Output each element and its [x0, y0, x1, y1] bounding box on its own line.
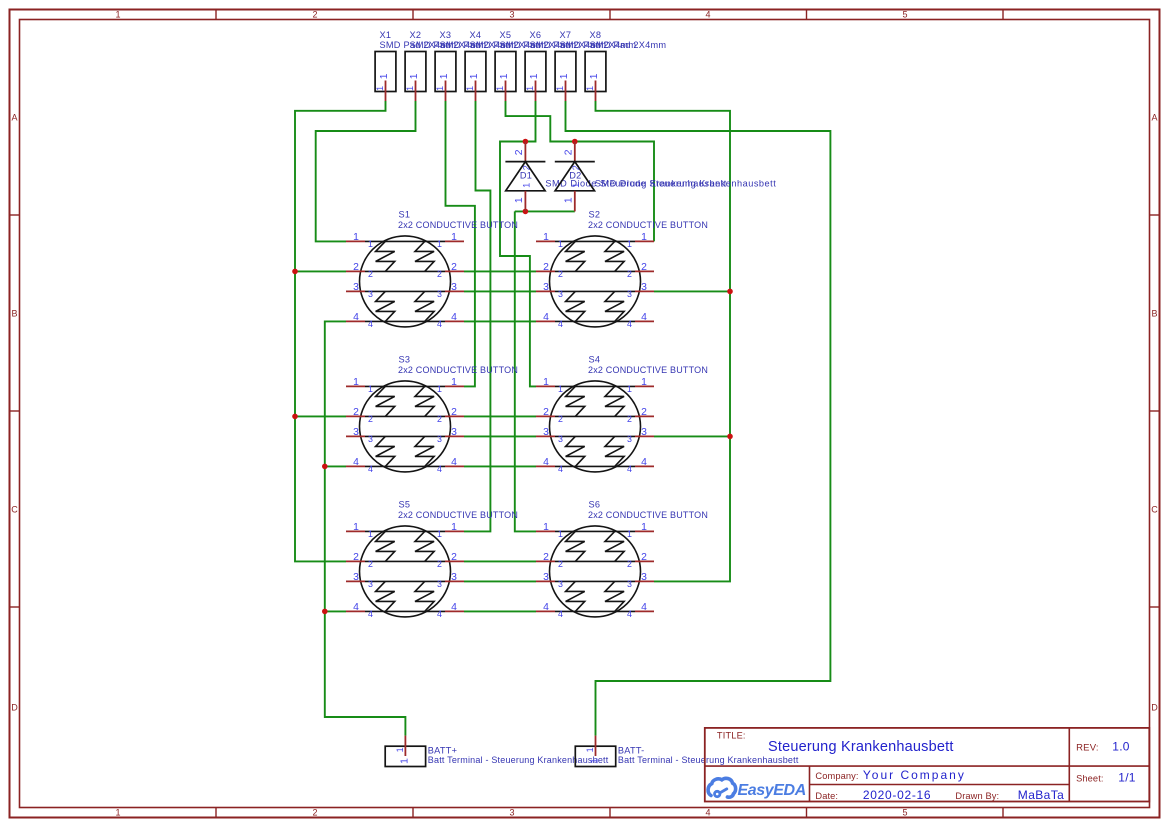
svg-text:1: 1 [353, 377, 359, 388]
svg-text:3: 3 [558, 434, 563, 444]
svg-text:3: 3 [627, 289, 632, 299]
svg-text:X4: X4 [470, 30, 482, 40]
svg-text:TITLE:: TITLE: [717, 731, 746, 741]
svg-text:2: 2 [312, 10, 317, 20]
svg-text:Steuerung Krankenhausbett: Steuerung Krankenhausbett [768, 739, 954, 755]
wire X3 to S3 pin 1 [446, 101, 475, 386]
S1 body [360, 236, 451, 327]
svg-text:2: 2 [627, 269, 632, 279]
button S2 (2x2 CONDUCTIVE BUTTON) [536, 209, 708, 329]
svg-text:3: 3 [509, 10, 514, 20]
svg-text:1: 1 [439, 73, 450, 79]
svg-text:BATT-: BATT- [618, 746, 645, 756]
S4 pin 1 [536, 377, 654, 394]
wire X7 to BATT- [566, 101, 831, 736]
svg-text:1: 1 [465, 86, 475, 91]
svg-text:Batt Terminal - Steuerung Kran: Batt Terminal - Steuerung Krankenhausbet… [618, 755, 799, 765]
svg-text:A: A [11, 113, 17, 123]
svg-text:2: 2 [437, 559, 442, 569]
svg-text:2: 2 [353, 262, 359, 273]
svg-text:1: 1 [589, 73, 600, 79]
svg-text:4: 4 [437, 319, 442, 329]
svg-text:Drawn By:: Drawn By: [955, 791, 999, 801]
svg-text:2: 2 [641, 262, 647, 273]
svg-text:1: 1 [437, 384, 442, 394]
wire X5 to D2 cathode and S2 pin 1 [506, 101, 655, 241]
svg-text:2x2 CONDUCTIVE BUTTON: 2x2 CONDUCTIVE BUTTON [588, 365, 708, 375]
svg-text:4: 4 [558, 319, 563, 329]
wire row link at y=561.4 [464, 560, 536, 562]
svg-text:X1: X1 [380, 30, 392, 40]
wire diode anodes to S6 pin 1 [515, 211, 536, 531]
svg-text:4: 4 [451, 312, 457, 323]
svg-text:1: 1 [627, 384, 632, 394]
svg-text:Sheet:: Sheet: [1076, 774, 1103, 784]
svg-text:D: D [1151, 703, 1158, 713]
svg-text:3: 3 [368, 434, 373, 444]
wire row link at y=436.4 [464, 435, 536, 437]
junction [322, 609, 328, 615]
S5 pin 4 [346, 602, 464, 619]
svg-text:4: 4 [451, 457, 457, 468]
svg-text:1: 1 [543, 232, 549, 243]
S1 pin 3 [346, 282, 464, 299]
svg-text:4: 4 [451, 602, 457, 613]
svg-text:3: 3 [437, 434, 442, 444]
S4 pin 4 [536, 457, 654, 474]
junction [322, 464, 328, 470]
button S1 (2x2 CONDUCTIVE BUTTON) [346, 209, 518, 329]
S6 contact zigzags [566, 531, 625, 611]
svg-text:1: 1 [379, 73, 390, 79]
wire pin-4 bus to BATT+ [325, 321, 406, 735]
svg-text:5: 5 [902, 10, 907, 20]
svg-text:2: 2 [543, 262, 549, 273]
svg-text:5: 5 [902, 808, 907, 818]
svg-text:S4: S4 [589, 354, 601, 364]
svg-text:2: 2 [558, 559, 563, 569]
svg-text:1: 1 [558, 529, 563, 539]
svg-text:1: 1 [437, 239, 442, 249]
svg-text:1: 1 [627, 529, 632, 539]
junction [727, 434, 733, 440]
svg-text:X3: X3 [440, 30, 452, 40]
svg-text:C: C [1151, 505, 1158, 515]
svg-text:3: 3 [353, 427, 359, 438]
svg-text:1: 1 [525, 86, 535, 91]
svg-text:2: 2 [437, 414, 442, 424]
svg-text:4: 4 [627, 609, 632, 619]
svg-text:B: B [11, 309, 17, 319]
svg-text:2: 2 [543, 407, 549, 418]
svg-text:2: 2 [368, 269, 373, 279]
S4 body [550, 381, 641, 472]
S2 contact zigzags [566, 241, 625, 321]
svg-text:1: 1 [499, 73, 510, 79]
connector X7 (SMD Pad 2X4mm) [555, 30, 636, 101]
svg-text:1: 1 [115, 808, 120, 818]
svg-text:4: 4 [437, 464, 442, 474]
X5 pin 1 [505, 81, 507, 102]
svg-text:4: 4 [368, 464, 373, 474]
wire row link at y=466.4 [464, 465, 536, 467]
svg-text:1: 1 [558, 384, 563, 394]
junction [292, 414, 298, 420]
svg-text:MaBaTa: MaBaTa [1018, 788, 1064, 802]
svg-text:4: 4 [543, 312, 549, 323]
svg-text:3: 3 [627, 434, 632, 444]
X3 pin 1 [445, 81, 447, 102]
connector X8 (SMD Pad 2X4mm) [585, 30, 666, 101]
svg-text:4: 4 [353, 602, 359, 613]
junction [572, 139, 578, 145]
svg-text:B: B [1151, 309, 1157, 319]
wire row link at y=271.4 [464, 270, 536, 272]
svg-text:2: 2 [641, 552, 647, 563]
button S5 (2x2 CONDUCTIVE BUTTON) [346, 499, 518, 619]
S2 pin 1 [536, 232, 654, 249]
S6 pin 1 [536, 522, 654, 539]
svg-text:2: 2 [558, 269, 563, 279]
S4 contact zigzags [566, 386, 625, 466]
S3 pin 4 [346, 457, 464, 474]
svg-text:Batt Terminal - Steuerung Kran: Batt Terminal - Steuerung Krankenhausbet… [428, 755, 609, 765]
svg-text:2: 2 [558, 414, 563, 424]
svg-text:2: 2 [451, 262, 457, 273]
svg-text:2: 2 [563, 149, 574, 155]
svg-text:1: 1 [375, 86, 385, 91]
svg-text:4: 4 [627, 319, 632, 329]
svg-text:1: 1 [571, 183, 581, 188]
svg-text:D: D [11, 703, 18, 713]
svg-text:4: 4 [543, 602, 549, 613]
svg-text:1: 1 [405, 86, 415, 91]
wire branch to S3 pin 4 [325, 465, 346, 467]
svg-text:3: 3 [451, 282, 457, 293]
D2 triangle [555, 162, 594, 191]
S2 pin 4 [536, 312, 654, 329]
connector X1 (SMD Pad 2X4mm) [375, 30, 456, 101]
svg-text:3: 3 [353, 572, 359, 583]
svg-text:C: C [11, 505, 18, 515]
svg-text:1: 1 [558, 239, 563, 249]
EasyEDA logo [708, 778, 806, 799]
S4 pin 3 [536, 427, 654, 444]
X2 pin 1 [415, 81, 417, 102]
svg-text:Your Company: Your Company [863, 768, 966, 782]
terminal BATT+ (Batt Terminal) [385, 736, 609, 767]
svg-text:2: 2 [627, 559, 632, 569]
svg-text:2: 2 [641, 407, 647, 418]
svg-text:1: 1 [563, 197, 574, 203]
S5 pin 2 [346, 552, 464, 569]
svg-text:3: 3 [451, 572, 457, 583]
svg-text:2: 2 [451, 552, 457, 563]
svg-text:X6: X6 [530, 30, 542, 40]
diode D2 (SMD Diode Steuerung Krankenhausbett) [555, 142, 776, 212]
wire row link at y=416.4 [464, 415, 536, 417]
button S4 (2x2 CONDUCTIVE BUTTON) [536, 354, 708, 474]
D1 pin 1 (anode) [524, 191, 526, 212]
S2 body [550, 236, 641, 327]
svg-text:1: 1 [514, 197, 525, 203]
X6 pin 1 [535, 81, 537, 102]
S4 pin 2 [536, 407, 654, 424]
svg-text:4: 4 [641, 602, 647, 613]
svg-text:2: 2 [312, 808, 317, 818]
wire X6 to D1 cathode and S4 pin 1 [500, 101, 536, 386]
svg-text:1: 1 [399, 758, 410, 764]
svg-text:1: 1 [469, 73, 480, 79]
svg-text:1: 1 [353, 522, 359, 533]
wire branch to S4 pin 3 [654, 435, 730, 437]
svg-text:1: 1 [451, 232, 457, 243]
wire row link at y=581.4 [464, 580, 536, 582]
svg-text:4: 4 [543, 457, 549, 468]
D2 cathode bar [555, 161, 595, 163]
svg-text:SMD Pad 2X4mm: SMD Pad 2X4mm [590, 40, 667, 50]
wire branch to S2 pin 3 [654, 290, 730, 292]
connector X2 (SMD Pad 2X4mm) [405, 30, 486, 101]
S5 pin 3 [346, 572, 464, 589]
button S3 (2x2 CONDUCTIVE BUTTON) [346, 354, 518, 474]
svg-text:2: 2 [437, 269, 442, 279]
svg-text:2: 2 [368, 559, 373, 569]
wire X4 to S5 pin 1 [464, 101, 490, 531]
svg-text:1: 1 [495, 86, 505, 91]
svg-text:1: 1 [641, 377, 647, 388]
svg-text:1: 1 [641, 232, 647, 243]
wire row link at y=321.4 [464, 320, 536, 322]
svg-text:2x2 CONDUCTIVE BUTTON: 2x2 CONDUCTIVE BUTTON [398, 220, 518, 230]
svg-text:1: 1 [353, 232, 359, 243]
connector X5 (SMD Pad 2X4mm) [495, 30, 576, 101]
svg-text:1: 1 [451, 377, 457, 388]
svg-text:S6: S6 [589, 499, 601, 509]
X4 pin 1 [475, 81, 477, 102]
button S6 (2x2 CONDUCTIVE BUTTON) [536, 499, 708, 619]
S6 pin 2 [536, 552, 654, 569]
svg-text:1: 1 [451, 522, 457, 533]
D1 cathode bar [505, 161, 545, 163]
svg-text:1: 1 [368, 384, 373, 394]
svg-text:3: 3 [543, 282, 549, 293]
svg-text:4: 4 [353, 457, 359, 468]
svg-text:1: 1 [522, 183, 532, 188]
svg-text:3: 3 [641, 572, 647, 583]
svg-text:1: 1 [409, 73, 420, 79]
S1 contact zigzags [376, 241, 435, 321]
terminal BATT- (Batt Terminal) [575, 736, 799, 767]
svg-text:3: 3 [353, 282, 359, 293]
svg-text:REV:: REV: [1076, 743, 1099, 754]
svg-text:3: 3 [368, 579, 373, 589]
D2 pin 2 (cathode) [574, 142, 576, 162]
svg-text:Company:: Company: [815, 771, 858, 781]
diode D1 (SMD Diode Steuerung Krankenhausbett) [505, 142, 726, 212]
junction [292, 269, 298, 275]
connector X3 (SMD Pad 2X4mm) [435, 30, 516, 101]
svg-text:X5: X5 [500, 30, 512, 40]
wire D1 anode to D2 anode [515, 210, 575, 212]
svg-text:2x2 CONDUCTIVE BUTTON: 2x2 CONDUCTIVE BUTTON [398, 365, 518, 375]
svg-text:A: A [1151, 113, 1157, 123]
S3 pin 2 [346, 407, 464, 424]
S6 pin 4 [536, 602, 654, 619]
svg-text:1: 1 [529, 73, 540, 79]
svg-text:2: 2 [514, 149, 525, 155]
junction [523, 209, 529, 215]
svg-text:X2: X2 [410, 30, 422, 40]
svg-text:4: 4 [641, 457, 647, 468]
S6 pin 3 [536, 572, 654, 589]
svg-text:S2: S2 [589, 209, 601, 219]
svg-text:EasyEDA: EasyEDA [738, 782, 806, 799]
D2 pin 1 (anode) [574, 191, 576, 212]
svg-text:4: 4 [705, 10, 710, 20]
svg-text:1/1: 1/1 [1118, 771, 1136, 785]
S3 contact zigzags [376, 386, 435, 466]
svg-text:S1: S1 [399, 209, 411, 219]
svg-text:1: 1 [641, 522, 647, 533]
X8 pin 1 [595, 81, 597, 102]
svg-text:2x2 CONDUCTIVE BUTTON: 2x2 CONDUCTIVE BUTTON [588, 220, 708, 230]
svg-text:D1: D1 [520, 171, 532, 181]
svg-text:Date:: Date: [815, 791, 838, 801]
D1 triangle [506, 162, 545, 191]
S5 body [360, 526, 451, 617]
wire branch to S5 pin 4 [325, 610, 346, 612]
svg-text:3: 3 [368, 289, 373, 299]
S5 contact zigzags [376, 531, 435, 611]
S1 pin 4 [346, 312, 464, 329]
svg-text:3: 3 [543, 572, 549, 583]
svg-text:3: 3 [543, 427, 549, 438]
svg-text:4: 4 [368, 319, 373, 329]
svg-text:2: 2 [451, 407, 457, 418]
svg-text:2x2 CONDUCTIVE BUTTON: 2x2 CONDUCTIVE BUTTON [588, 510, 708, 520]
svg-text:1: 1 [585, 86, 595, 91]
svg-text:SMD Diode Steuerung Krankenhau: SMD Diode Steuerung Krankenhausbett [595, 178, 776, 188]
svg-text:1: 1 [543, 522, 549, 533]
svg-text:1: 1 [435, 86, 445, 91]
svg-text:3: 3 [509, 808, 514, 818]
svg-text:1: 1 [368, 239, 373, 249]
svg-text:4: 4 [368, 609, 373, 619]
svg-text:1: 1 [585, 747, 595, 752]
junction [727, 289, 733, 295]
svg-text:X8: X8 [590, 30, 602, 40]
svg-text:1: 1 [555, 86, 565, 91]
S1 pin 2 [346, 262, 464, 279]
svg-text:1: 1 [559, 73, 570, 79]
D1 pin 2 (cathode) [524, 142, 526, 162]
S3 pin 1 [346, 377, 464, 394]
svg-text:1: 1 [115, 10, 120, 20]
svg-text:3: 3 [437, 579, 442, 589]
wire X2 to S1 pin 1 [316, 101, 416, 241]
svg-text:D2: D2 [569, 171, 581, 181]
BATT- pin 1 [595, 736, 597, 756]
wire row link at y=291.4 [464, 290, 536, 292]
svg-text:4: 4 [558, 464, 563, 474]
svg-text:2: 2 [353, 552, 359, 563]
connector X4 (SMD Pad 2X4mm) [465, 30, 546, 101]
X7 pin 1 [565, 81, 567, 102]
svg-text:1: 1 [543, 377, 549, 388]
S2 pin 3 [536, 282, 654, 299]
svg-text:3: 3 [558, 289, 563, 299]
junction [523, 139, 529, 145]
svg-text:1: 1 [627, 239, 632, 249]
svg-text:1.0: 1.0 [1112, 740, 1130, 754]
wire X8 pin-3 bus [596, 101, 731, 581]
svg-text:4: 4 [353, 312, 359, 323]
svg-text:2: 2 [353, 407, 359, 418]
svg-text:3: 3 [641, 427, 647, 438]
svg-text:4: 4 [627, 464, 632, 474]
svg-text:2x2 CONDUCTIVE BUTTON: 2x2 CONDUCTIVE BUTTON [398, 510, 518, 520]
svg-text:3: 3 [627, 579, 632, 589]
svg-text:S5: S5 [399, 499, 411, 509]
svg-text:BATT+: BATT+ [428, 746, 457, 756]
svg-text:3: 3 [558, 579, 563, 589]
connector X6 (SMD Pad 2X4mm) [525, 30, 606, 101]
svg-text:4: 4 [641, 312, 647, 323]
BATT+ pin 1 [404, 736, 406, 756]
svg-text:1: 1 [395, 747, 405, 752]
svg-text:2: 2 [627, 414, 632, 424]
svg-text:4: 4 [437, 609, 442, 619]
wire row link at y=611.4 [464, 610, 536, 612]
title block [705, 728, 1150, 802]
svg-text:S3: S3 [399, 354, 411, 364]
wire branch to S1 pin 2 [295, 270, 346, 272]
wire branch to S3 pin 2 [295, 415, 346, 417]
S2 pin 2 [536, 262, 654, 279]
svg-text:3: 3 [451, 427, 457, 438]
svg-text:2: 2 [368, 414, 373, 424]
S5 pin 1 [346, 522, 464, 539]
svg-text:X7: X7 [560, 30, 572, 40]
svg-text:1: 1 [368, 529, 373, 539]
svg-text:3: 3 [437, 289, 442, 299]
svg-text:1: 1 [589, 758, 600, 764]
svg-text:3: 3 [641, 282, 647, 293]
S3 pin 3 [346, 427, 464, 444]
svg-text:4: 4 [558, 609, 563, 619]
X1 pin 1 [385, 81, 387, 102]
svg-text:4: 4 [705, 808, 710, 818]
svg-text:2020-02-16: 2020-02-16 [863, 788, 931, 802]
wire X1 to bus left [295, 101, 386, 561]
S6 body [550, 526, 641, 617]
svg-text:1: 1 [437, 529, 442, 539]
svg-text:2: 2 [543, 552, 549, 563]
S3 body [360, 381, 451, 472]
S1 pin 1 [346, 232, 464, 249]
